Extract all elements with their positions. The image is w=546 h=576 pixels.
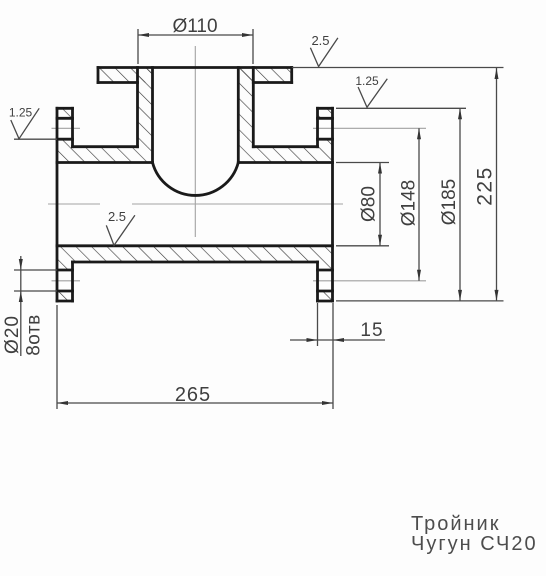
left top flange hole top edge <box>57 117 73 120</box>
dim 148 bottom arrow <box>417 270 421 281</box>
roughness symbol 1.25 right <box>358 79 387 108</box>
left bottom flange hole top edge <box>57 269 73 272</box>
title block text <box>411 513 538 555</box>
svg-text:Ø185: Ø185 <box>439 179 460 225</box>
hatch body bottom wall <box>57 246 333 262</box>
dim 265 extension line left <box>56 305 58 409</box>
svg-text:2.5: 2.5 <box>108 209 126 224</box>
thin dimension and extension lines <box>14 29 504 409</box>
right bottom flange tab bottom edge <box>318 300 333 303</box>
hatch left bottom flange tab above hole <box>57 262 73 270</box>
dim 110 right arrow <box>242 33 253 37</box>
svg-text:2.5: 2.5 <box>311 33 329 48</box>
left bottom flange tab bottom edge <box>57 300 73 303</box>
svg-text:Ø80: Ø80 <box>359 186 380 222</box>
dim 265 left arrow <box>57 401 68 405</box>
bolt circle centerline right bottom with extension for dim 148 <box>313 280 426 282</box>
right top flange tab top edge <box>318 107 333 110</box>
top flange top edge <box>98 66 292 69</box>
top flange left edge <box>97 68 100 83</box>
svg-text:1.25: 1.25 <box>355 74 379 88</box>
dim 148 dimension line <box>418 128 420 280</box>
svg-text:Тройник: Тройник <box>411 513 500 535</box>
dim 225 dimension line <box>496 68 498 301</box>
hatch left bottom flange tab below hole <box>57 291 73 301</box>
top face extension line to the right (for 225 and roughness 2.5) <box>292 67 504 69</box>
dim 110 dimension line <box>138 34 253 36</box>
dim 15 dimension line <box>290 339 385 341</box>
top flange underside right <box>253 81 291 84</box>
dim 15 and 265 extension line right <box>332 303 334 409</box>
svg-text:225: 225 <box>474 166 497 206</box>
hatch right top flange tab above hole <box>318 108 333 118</box>
body top wall outer right <box>253 145 317 148</box>
left top flange hole bottom edge <box>57 138 73 141</box>
top flange right edge <box>290 68 293 83</box>
dim 185 dimension line <box>459 108 461 301</box>
horizontal centerline of main bore right part <box>132 203 343 205</box>
body bottom wall outer <box>73 261 318 264</box>
horizontal centerline of main bore <box>48 203 100 205</box>
left bottom flange tab left part <box>71 262 74 301</box>
dim 265 right arrow <box>322 401 333 405</box>
dim 20 extension line top <box>14 269 57 271</box>
flange bottom extension line right (for 185 and 225) <box>336 300 504 302</box>
dim 20 bottom arrow outside <box>19 291 23 302</box>
dim 148 top arrow <box>417 128 421 139</box>
svg-text:1.25: 1.25 <box>9 106 33 120</box>
hatch right bottom flange tab above hole <box>318 262 333 270</box>
branch inner wall left <box>151 68 154 163</box>
svg-text:Ø148: Ø148 <box>399 180 420 226</box>
dim 110 extension line left <box>137 29 139 64</box>
svg-text:Чугун СЧ20: Чугун СЧ20 <box>411 533 538 555</box>
dim 110 extension line right <box>252 29 254 64</box>
bore bottom extension right (for 80) <box>336 245 389 247</box>
svg-text:8отв: 8отв <box>24 314 45 356</box>
bore top inner surface right <box>238 161 332 164</box>
svg-text:15: 15 <box>360 320 383 341</box>
right bottom flange hole bottom edge <box>318 290 333 293</box>
hatch top flange left section <box>98 68 153 83</box>
outline group: thick cut lines <box>57 68 333 302</box>
right bottom flange tab right part <box>316 262 319 301</box>
bore bottom inner surface <box>57 244 333 247</box>
dim 80 bottom arrow <box>378 235 382 246</box>
hatch body top wall right <box>238 147 332 163</box>
top flange underside left <box>98 81 138 84</box>
dim 110 left arrow <box>138 33 149 37</box>
right bottom flange hole top edge <box>318 269 333 272</box>
dim 80 dimension line <box>379 163 381 246</box>
bolt circle centerline left top <box>52 127 81 129</box>
left top flange tab top edge <box>57 107 73 110</box>
dim 15 right arrow outside <box>333 338 344 342</box>
bolt circle centerline left bottom <box>52 280 81 282</box>
right top flange tab left edge <box>316 108 319 146</box>
hatch branch right wall <box>238 68 253 147</box>
dim 225 bottom arrow <box>495 290 499 301</box>
left top flange tab right edge <box>71 108 74 146</box>
dim 265 dimension line <box>57 402 333 404</box>
right top flange hole top edge <box>318 117 333 120</box>
bore top extension right (for 80) <box>336 162 389 164</box>
hatch left top flange tab below hole <box>57 139 73 147</box>
roughness 1.25 left extension line <box>14 138 57 140</box>
left end face <box>56 108 59 301</box>
branch bore intersection arc <box>153 163 239 196</box>
svg-text:Ø20: Ø20 <box>2 315 23 354</box>
branch outer wall left <box>136 68 139 147</box>
hatch right top flange tab below hole <box>318 139 333 147</box>
roughness symbol 2.5 middle <box>106 215 135 245</box>
dim 20 extension line bottom <box>14 290 57 292</box>
body top wall outer left <box>73 145 138 148</box>
right top flange hole bottom edge <box>318 138 333 141</box>
dim 225 top arrow <box>495 68 499 79</box>
branch outer wall right <box>252 68 255 147</box>
svg-text:Ø110: Ø110 <box>172 16 217 37</box>
dim 15 extension line left <box>317 303 319 346</box>
hatch branch left wall <box>138 68 153 147</box>
dimension texts <box>2 16 497 406</box>
roughness symbol 2.5 top <box>310 38 338 67</box>
hatch body top wall left <box>57 147 153 163</box>
hatch right bottom flange tab below hole <box>318 291 333 301</box>
roughness symbol 1.25 left <box>11 108 39 139</box>
bore top inner surface left <box>57 161 153 164</box>
hatch left top flange tab above hole <box>57 108 73 118</box>
left bottom flange hole bottom edge <box>57 290 73 293</box>
dim 20 top arrow outside <box>19 259 23 270</box>
flange od extension line right (for 185 and roughness 1.25) <box>336 107 466 109</box>
bolt circle centerline right top with extension for dim 148 <box>313 127 426 129</box>
hatch top flange right section <box>238 68 291 83</box>
branch inner wall right <box>237 68 240 163</box>
dim 80 top arrow <box>378 163 382 174</box>
dim 185 bottom arrow <box>458 290 462 301</box>
dim 20 dimension line with text underline <box>20 256 22 356</box>
arrowheads <box>19 33 499 405</box>
dim 185 top arrow <box>458 108 462 119</box>
dim 15 left arrow outside <box>307 338 318 342</box>
right end face <box>331 108 334 301</box>
vertical centerline of branch <box>194 46 196 237</box>
svg-text:265: 265 <box>175 384 211 406</box>
